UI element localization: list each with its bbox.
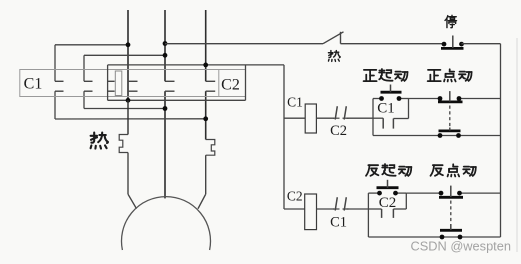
svg-text:C2: C2 xyxy=(330,123,347,139)
svg-text:CSDN @wespten: CSDN @wespten xyxy=(411,239,511,254)
svg-text:C1: C1 xyxy=(287,95,303,110)
svg-text:C1: C1 xyxy=(377,101,395,117)
svg-text:C2: C2 xyxy=(221,77,240,94)
svg-text:C2: C2 xyxy=(287,189,303,204)
svg-text:C2: C2 xyxy=(379,195,397,211)
svg-text:C1: C1 xyxy=(24,76,43,93)
svg-text:C1: C1 xyxy=(330,215,347,231)
